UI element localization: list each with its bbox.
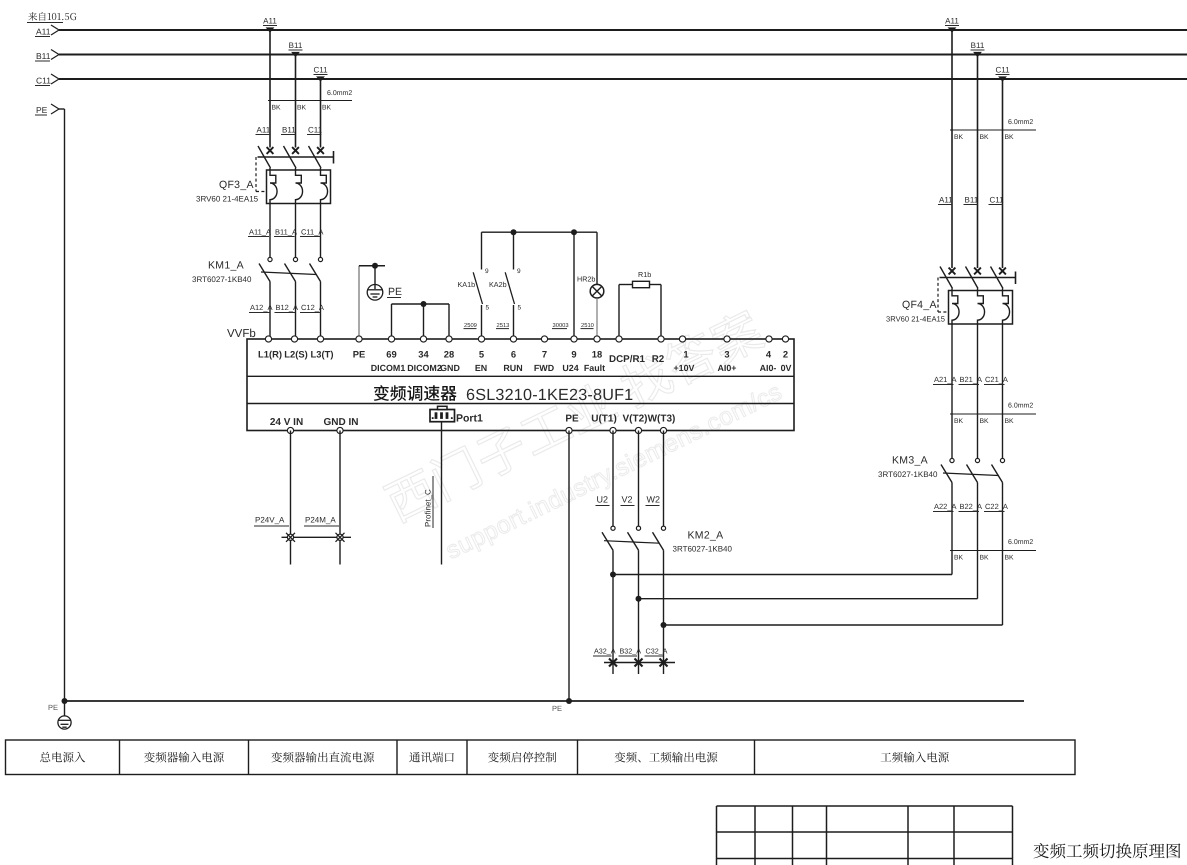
svg-text:BK: BK [297, 105, 307, 112]
svg-text:1: 1 [683, 349, 688, 360]
svg-text:B32_A: B32_A [620, 647, 642, 656]
svg-text:U(T1): U(T1) [591, 414, 617, 425]
wire label B11 above QF3 [281, 126, 296, 135]
svg-text:7: 7 [542, 349, 547, 360]
VFD bottom terminals [287, 427, 666, 433]
ground PE symbol near VFD [367, 266, 383, 300]
svg-text:B11: B11 [36, 51, 51, 61]
svg-text:5: 5 [518, 305, 522, 312]
svg-text:A11_A: A11_A [249, 228, 271, 237]
svg-text:L1(R): L1(R) [258, 349, 282, 360]
svg-text:R1b: R1b [638, 270, 651, 279]
zone label 变频器输出直流电源 [271, 752, 374, 763]
wire label C22_A [984, 502, 1008, 512]
wire label B21_A [959, 375, 983, 385]
wire number 30003 [552, 322, 569, 329]
wire QF3_A to KM1_A pole A [269, 204, 271, 258]
svg-text:PE: PE [48, 703, 58, 712]
svg-text:AI0+: AI0+ [718, 363, 737, 373]
svg-text:L3(T): L3(T) [311, 349, 334, 360]
svg-text:4: 4 [766, 349, 772, 360]
svg-text:BK: BK [954, 418, 964, 425]
wire drop right B [977, 55, 979, 269]
svg-text:+10V: +10V [674, 363, 695, 373]
svg-text:KA2b: KA2b [489, 280, 507, 289]
svg-text:A21_A: A21_A [934, 375, 957, 384]
wire drop C11 to QF3_A [320, 79, 322, 148]
svg-text:BK: BK [1005, 134, 1015, 141]
VFD name 变频调速器 [374, 385, 457, 401]
wire label C32_A [645, 647, 668, 657]
svg-text:C11: C11 [36, 76, 51, 86]
svg-text:PE: PE [565, 414, 579, 425]
svg-text:A11: A11 [939, 196, 953, 205]
cable size label 6.0mm2 left [268, 90, 352, 101]
zone label 变频器输入电源 [144, 752, 224, 763]
relay contact KA1b [473, 232, 482, 339]
wire label C11_A [300, 228, 323, 237]
cable size 6.0mm2 right top [950, 119, 1036, 130]
wire KM3 A down-left [951, 483, 953, 575]
wire KM2 pole C down [663, 550, 665, 674]
svg-text:C11: C11 [995, 66, 1010, 75]
wire label P24M_A [304, 516, 339, 527]
wire KM1_A to L2(S) [295, 282, 297, 340]
svg-text:6SL3210-1KE23-8UF1: 6SL3210-1KE23-8UF1 [466, 386, 633, 404]
svg-text:3RT6027-1KB40: 3RT6027-1KB40 [878, 470, 938, 479]
wire drop right A [951, 30, 953, 268]
contactor KM3_A [941, 458, 1005, 482]
svg-text:C11_A: C11_A [301, 228, 323, 237]
wire bus down to terminal 9 [573, 232, 575, 339]
wire KM2 pole B down [638, 550, 640, 674]
wire bracket 69-34-28 [392, 304, 450, 339]
breaker QF4_A 3-pole with thermal overload [938, 267, 1016, 325]
wire 24V IN drop [290, 431, 292, 565]
watermark siemens [381, 306, 792, 578]
svg-text:EN: EN [475, 363, 487, 373]
wire PE terminal to earth bar [359, 266, 385, 339]
svg-text:L2(S): L2(S) [284, 349, 307, 360]
cable marks to motor [604, 659, 675, 667]
svg-text:A11: A11 [263, 17, 277, 26]
svg-text:B11: B11 [282, 126, 296, 135]
svg-text:5: 5 [479, 349, 484, 360]
wire label A21_A [933, 375, 957, 385]
svg-text:C32_A: C32_A [646, 647, 668, 656]
svg-text:A22_A: A22_A [934, 502, 957, 511]
wire QF3_A to KM1_A pole B [295, 204, 297, 258]
wire QF3_A to KM1_A pole C [320, 204, 322, 258]
wire PE from source [35, 104, 65, 701]
wire KM1_A to L3(T) [320, 282, 322, 340]
zone label 变频启停控制 [488, 752, 556, 763]
svg-text:0V: 0V [781, 363, 792, 373]
svg-text:QF3_A: QF3_A [219, 179, 254, 191]
svg-text:6.0mm2: 6.0mm2 [1008, 119, 1033, 126]
wire label A32_A [593, 647, 616, 657]
svg-text:2509: 2509 [464, 322, 477, 329]
svg-text:5: 5 [486, 305, 490, 312]
svg-text:69: 69 [386, 349, 396, 360]
terminal labels row 2 [371, 363, 792, 373]
svg-text:6.0mm2: 6.0mm2 [1008, 539, 1033, 546]
svg-text:P24M_A: P24M_A [305, 516, 336, 525]
wire QF4 to KM3 C [1002, 324, 1004, 458]
junction tap C11 left [313, 66, 328, 82]
zone label 工频输入电源 [881, 752, 949, 763]
svg-text:C11: C11 [990, 196, 1005, 205]
wire label W2 [646, 495, 661, 506]
contactor KM2_A [602, 526, 666, 550]
svg-text:A11: A11 [36, 27, 51, 37]
svg-text:9: 9 [517, 268, 521, 275]
wire control bus above terminals 5-18 [482, 231, 598, 233]
zone label 变频、工频输出电源 [615, 752, 718, 763]
svg-text:24 V IN: 24 V IN [270, 417, 303, 428]
svg-text:R2: R2 [652, 354, 665, 365]
VFD top terminals [265, 336, 788, 342]
wire Profinet cable [441, 422, 443, 565]
wire drop right C [1002, 79, 1004, 268]
svg-text:6.0mm2: 6.0mm2 [327, 90, 352, 97]
svg-text:2513: 2513 [497, 322, 510, 329]
svg-text:6: 6 [511, 349, 516, 360]
junction dot PE middle [566, 698, 572, 704]
junction tap C11 right [995, 66, 1010, 82]
svg-text:V(T2): V(T2) [623, 414, 648, 425]
title block grid [717, 806, 1013, 865]
wire label B12_A [275, 303, 299, 313]
wire number 2510 [581, 322, 594, 329]
relay contact KA2b [505, 232, 514, 339]
zone label 通讯端口 [409, 752, 454, 763]
breaker QF3_A 3-pole with thermal overload [256, 146, 334, 204]
wire drop B11 to QF3_A [295, 55, 297, 148]
wire bus A11 [35, 25, 1187, 37]
resistor R1b [619, 281, 661, 339]
svg-text:KA1b: KA1b [458, 280, 476, 289]
svg-text:3RT6027-1KB40: 3RT6027-1KB40 [192, 275, 252, 284]
wire label C11 right [989, 196, 1005, 205]
svg-text:Profinet_C: Profinet_C [424, 489, 433, 527]
svg-text:DCP/R1: DCP/R1 [609, 354, 645, 365]
svg-text:Fault: Fault [584, 363, 605, 373]
wire label A12_A [249, 303, 273, 313]
svg-text:3: 3 [724, 349, 729, 360]
svg-text:B11_A: B11_A [275, 228, 297, 237]
wire KM1_A to L1(R) [269, 282, 271, 340]
junction tap A11 right [945, 17, 959, 33]
wire label P24V_A [254, 516, 289, 527]
wire label C11 above QF3 [307, 126, 323, 135]
svg-text:BK: BK [272, 105, 282, 112]
svg-text:PE: PE [353, 349, 366, 360]
BK labels right top [954, 134, 1014, 141]
svg-text:V2: V2 [622, 495, 633, 505]
BK labels right mid [954, 418, 1014, 425]
wire bus B11 [35, 50, 1187, 62]
svg-text:C11: C11 [313, 66, 328, 75]
wire number 2509 [464, 322, 477, 329]
svg-text:BK: BK [1005, 555, 1015, 562]
svg-text:A11: A11 [945, 17, 959, 26]
svg-text:W(T3): W(T3) [648, 414, 676, 425]
wire label V2 [621, 495, 635, 506]
wire V(T2) drop [638, 431, 640, 527]
svg-text:34: 34 [418, 349, 429, 360]
svg-text:QF4_A: QF4_A [902, 299, 937, 311]
wire label C21_A [984, 375, 1008, 385]
svg-text:A12_A: A12_A [250, 303, 273, 312]
wire QF4 to KM3 A [951, 324, 953, 458]
svg-text:B11: B11 [971, 41, 985, 50]
wire W(T3) drop [663, 431, 665, 527]
svg-text:6.0mm2: 6.0mm2 [1008, 403, 1033, 410]
svg-text:B11: B11 [965, 196, 979, 205]
lamp HR2b [590, 232, 604, 339]
svg-text:A32_A: A32_A [594, 647, 616, 656]
svg-text:DICOM2: DICOM2 [407, 363, 442, 373]
svg-text:PE: PE [36, 105, 48, 115]
svg-text:KM1_A: KM1_A [208, 260, 244, 272]
svg-text:Port1: Port1 [456, 413, 483, 425]
junction dot PE left [62, 698, 68, 704]
svg-text:C21_A: C21_A [985, 375, 1008, 384]
svg-text:PE: PE [388, 286, 402, 298]
wire GND IN drop [339, 431, 341, 565]
wire drop A11 to QF3_A [269, 30, 271, 148]
svg-text:C11: C11 [308, 126, 323, 135]
wire KM3 B down-left [977, 483, 979, 599]
cable size 6.0mm2 right low [950, 539, 1036, 551]
wire PE drop to PE bus [568, 431, 570, 702]
junction dot motor A [610, 572, 616, 578]
wire KM3 to motor B [639, 598, 978, 600]
junction tap A11 left [263, 17, 277, 33]
terminal labels DCP/R1 R2 [609, 354, 665, 365]
VFD 变频调速器 6SL3210-1KE23-8UF1 block [247, 339, 794, 431]
wire label B32_A [619, 647, 642, 657]
wire label A11_A [248, 228, 271, 237]
wire U(T1) drop [612, 431, 614, 527]
junction dot earth stub [372, 263, 378, 269]
svg-text:PE: PE [552, 704, 562, 713]
contactor KM1_A [259, 257, 323, 281]
junction dot on 34 [421, 301, 427, 307]
svg-text:B11: B11 [289, 41, 303, 50]
junction dot motor B [636, 596, 642, 602]
svg-text:BK: BK [954, 134, 964, 141]
wire KM3 to motor C [664, 624, 1003, 626]
node source label 来自101.5G [27, 12, 77, 23]
svg-text:U2: U2 [597, 495, 609, 505]
BK labels right low [954, 555, 1014, 562]
ground symbol PE left [58, 701, 71, 729]
svg-text:RUN: RUN [503, 363, 522, 373]
label Profinet_C rotated [424, 476, 434, 528]
svg-text:C12_A: C12_A [301, 303, 324, 312]
svg-text:9: 9 [485, 268, 489, 275]
svg-text:9: 9 [571, 349, 576, 360]
junction tap B11 right [971, 41, 985, 57]
svg-text:P24V_A: P24V_A [255, 516, 285, 525]
svg-text:KM2_A: KM2_A [688, 530, 724, 542]
svg-text:GND: GND [440, 363, 460, 373]
svg-text:28: 28 [444, 349, 454, 360]
svg-text:U24: U24 [562, 363, 578, 373]
wire label U2 [596, 495, 610, 506]
svg-text:18: 18 [592, 349, 602, 360]
junction dot motor C [661, 622, 667, 628]
svg-text:3RT6027-1KB40: 3RT6027-1KB40 [673, 545, 733, 554]
wire label B22_A [959, 502, 983, 512]
svg-text:BK: BK [954, 555, 964, 562]
svg-text:KM3_A: KM3_A [892, 455, 928, 467]
label PE near ground [387, 286, 402, 298]
wire label A11 right [938, 196, 953, 205]
svg-text:C22_A: C22_A [985, 502, 1008, 511]
junction tap B11 left [289, 41, 303, 57]
wire label A11 above QF3 [256, 126, 271, 135]
PE bus bottom [65, 700, 1025, 702]
wire QF4 to KM3 B [977, 324, 979, 458]
svg-text:2510: 2510 [581, 322, 594, 329]
svg-text:AI0-: AI0- [760, 363, 777, 373]
svg-text:FWD: FWD [534, 363, 555, 373]
svg-text:BK: BK [980, 418, 990, 425]
svg-text:BK: BK [322, 105, 332, 112]
cable size 6.0mm2 right mid [950, 403, 1036, 415]
zone label 总电源入 [40, 752, 85, 763]
wire number 2513 [496, 322, 509, 329]
drawing title 变频工频切换原理图 [1034, 843, 1181, 859]
svg-text:HR2b: HR2b [577, 275, 595, 284]
splice symbols 24V supply [282, 533, 352, 542]
wire KM2 pole A down [612, 550, 614, 674]
svg-text:3RV60 21-4EA15: 3RV60 21-4EA15 [886, 315, 945, 324]
wire KM3 C down-left [1002, 483, 1004, 626]
wire label B11_A [274, 228, 297, 237]
Port1 RJ45 icon [430, 406, 455, 421]
terminal labels row 1 [258, 349, 788, 360]
svg-text:BK: BK [980, 555, 990, 562]
svg-text:B21_A: B21_A [960, 375, 983, 384]
svg-text:A11: A11 [257, 126, 271, 135]
wire label C12_A [300, 303, 324, 313]
svg-text:GND IN: GND IN [324, 417, 359, 428]
svg-text:B12_A: B12_A [276, 303, 299, 312]
wire label B11 right [964, 196, 979, 205]
wire bus C11 [35, 74, 1187, 86]
svg-text:DICOM1: DICOM1 [371, 363, 406, 373]
svg-text:W2: W2 [647, 495, 661, 505]
wire KM3 to motor A [613, 574, 952, 576]
svg-text:B22_A: B22_A [960, 502, 983, 511]
svg-text:3RV60 21-4EA15: 3RV60 21-4EA15 [196, 195, 259, 204]
svg-text:2: 2 [783, 349, 788, 360]
svg-text:30003: 30003 [553, 322, 569, 329]
junction dot above 9 [571, 229, 577, 235]
wire label A22_A [933, 502, 957, 512]
zone label table [6, 740, 1076, 775]
junction dot above 6 [511, 229, 517, 235]
svg-text:BK: BK [980, 134, 990, 141]
svg-text:BK: BK [1005, 418, 1015, 425]
